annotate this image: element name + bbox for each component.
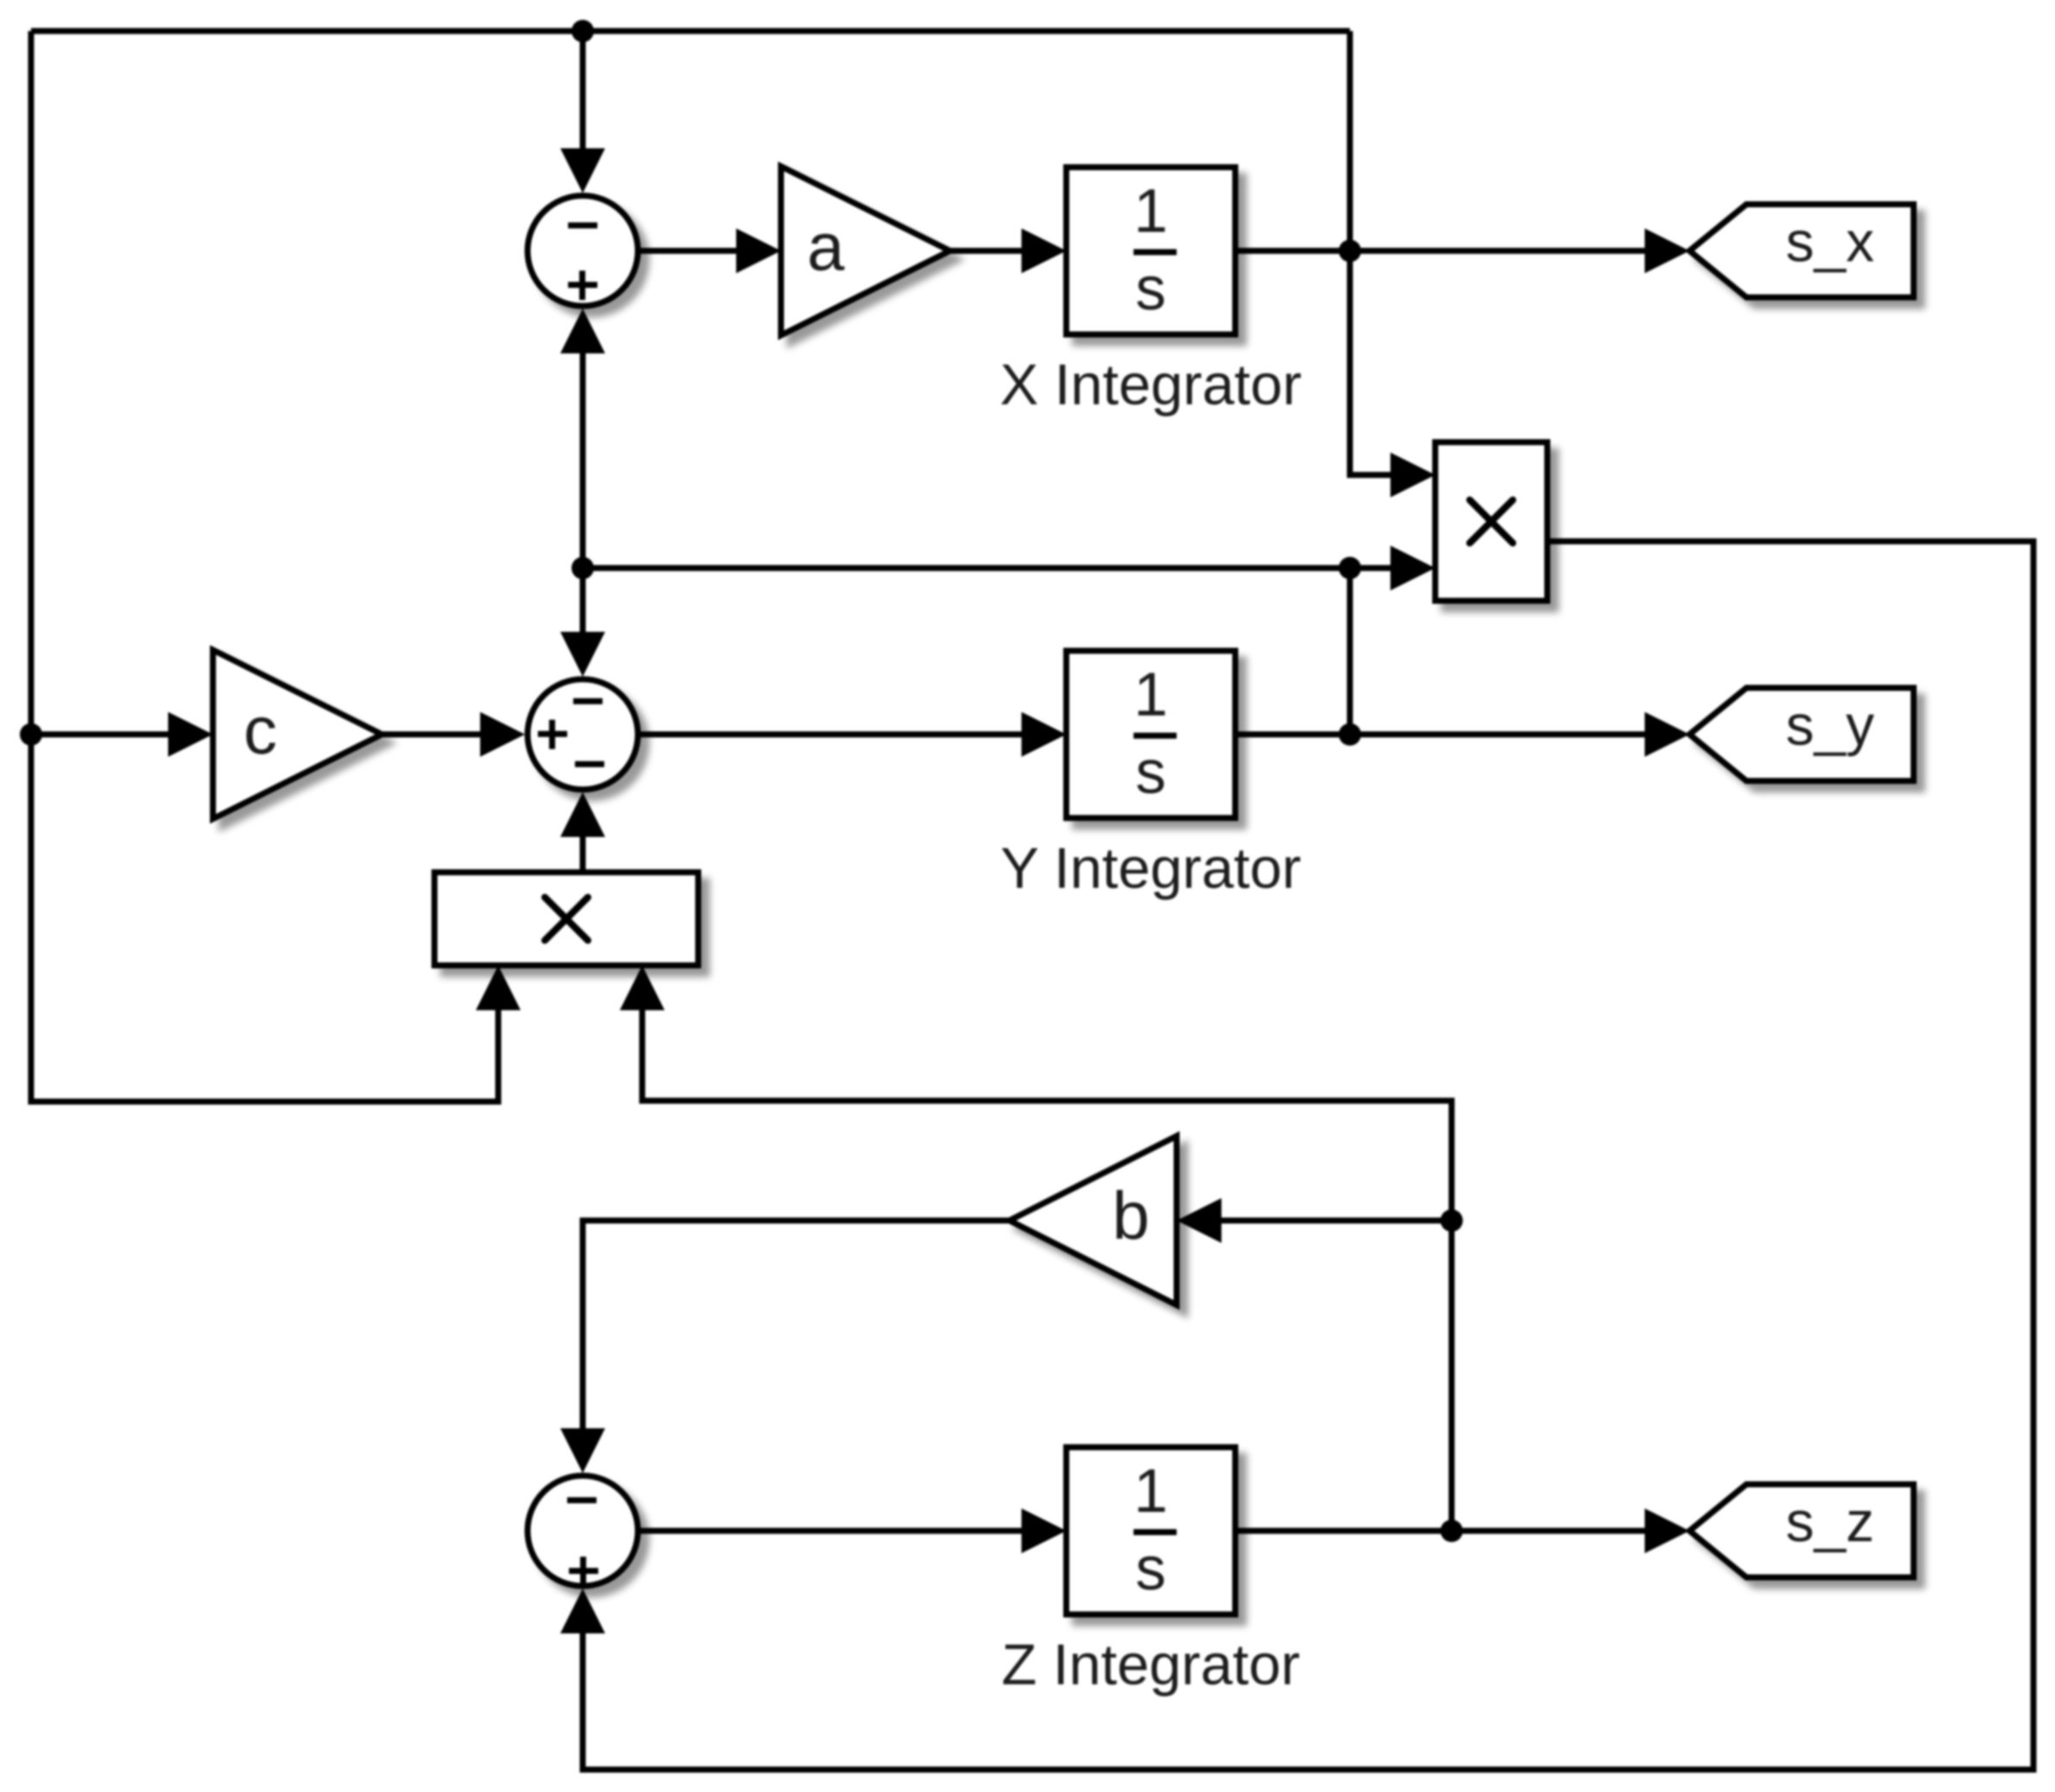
svg-text:s: s (1135, 1535, 1166, 1603)
outport s_y (1690, 688, 1914, 781)
wire: y state column up from Y row (1347, 568, 1353, 734)
Y integrator block 1/s (1066, 651, 1235, 818)
svg-text:s_x: s_x (1786, 209, 1875, 273)
arrowhead into outport s_z (1645, 1508, 1690, 1553)
gain b triangle (points left) (1009, 1136, 1177, 1305)
wire: y state row into multiplier input 2 (583, 565, 1390, 571)
Z sum plus sign (569, 1568, 598, 1574)
wire: z state branch into gain b (1221, 1218, 1452, 1224)
wire: Z integrator output to outport s_z (1235, 1528, 1645, 1534)
X integrator block 1/s (1066, 167, 1235, 334)
wire: Y sum output to Y integrator (640, 732, 1021, 738)
X sum plus sign (568, 282, 597, 288)
arrowhead into Y sum bottom (560, 792, 605, 837)
wire: X sum output to gain a (640, 248, 736, 254)
sum block X (minus top, plus bottom) (528, 196, 638, 306)
arrowhead into multiplier input 1 (1390, 453, 1435, 497)
arrowhead into multiplier input 2 (1390, 546, 1435, 590)
arrowhead into gain b (1177, 1198, 1221, 1243)
wire: gain a output to X integrator (950, 248, 1021, 254)
node: junction z column / gain b feed (1440, 1209, 1463, 1232)
wire: X integrator output to outport s_x (1235, 248, 1645, 254)
arrowhead into X sum top (560, 148, 605, 193)
arrowhead into Z integrator (1021, 1508, 1066, 1553)
svg-text:1: 1 (1134, 178, 1168, 246)
arrowhead into gain c (168, 712, 213, 757)
node: junction top wire / X sum feed (572, 20, 594, 42)
wire: Z sum output to Z integrator (640, 1528, 1021, 1534)
arrowhead into X integrator (1021, 228, 1066, 273)
node: junction y row / sums column (572, 557, 594, 579)
arrowhead into Z sum top (560, 1428, 605, 1473)
wire: z state feedback column up and over to product X input 2 (642, 1010, 1452, 1531)
wire: Y integrator output to outport s_y (1235, 732, 1645, 738)
arrowhead into outport s_x (1645, 228, 1690, 273)
arrowhead into Y integrator (1021, 712, 1066, 757)
multiplier x symbol (1470, 500, 1513, 543)
wire: gain c output to Y sum left (plus) (382, 732, 480, 738)
node: junction Z output row / z column (1440, 1520, 1463, 1542)
svg-text:1: 1 (1134, 661, 1168, 729)
arrowhead into Y sum top (560, 632, 605, 677)
svg-text:s_y: s_y (1786, 693, 1875, 757)
svg-text:s: s (1135, 739, 1166, 807)
arrowhead into gain a (736, 228, 781, 273)
node: junction y row / y column (1339, 557, 1361, 579)
node: junction left border / gain c feed (20, 723, 42, 746)
arrowhead into X sum bottom (560, 309, 605, 353)
sum block Y (plus left, minus top, minus bottom) (528, 679, 638, 790)
product X x symbol (545, 897, 588, 940)
wire: product X output up into Y sum bottom (minus) (580, 837, 586, 872)
gain a triangle (781, 166, 950, 335)
wire: column from top into multiplier input 1 (1350, 31, 1390, 475)
wire: y state down into Y sum top (minus) (580, 568, 586, 632)
outport s_z (1690, 1484, 1914, 1577)
gain c triangle (213, 650, 382, 819)
arrowhead into outport s_y (1645, 712, 1690, 757)
Z integrator block 1/s (1066, 1447, 1235, 1614)
svg-text:s_z: s_z (1786, 1489, 1875, 1553)
svg-text:a: a (807, 209, 845, 284)
wire: multiplier output loop right, down, to Z sum bottom (plus) (583, 541, 2033, 1770)
node: junction X row / multiplier column (1339, 240, 1361, 262)
wire: gain b output over and down to Z sum top (minus) (583, 1221, 1009, 1428)
arrowhead into Z sum bottom (560, 1589, 605, 1633)
arrowhead into product X input 2 (620, 965, 665, 1010)
arrowhead into product X input 1 (476, 965, 521, 1010)
svg-text:X Integrator: X Integrator (1000, 353, 1302, 417)
svg-text:c: c (244, 692, 278, 768)
node: junction Y output row / y column (1339, 723, 1361, 746)
svg-text:Y Integrator: Y Integrator (1001, 836, 1302, 901)
wire: drop into X sum top (minus) (580, 31, 586, 148)
wire: top feedback run (x state) (31, 28, 1350, 34)
Y sum bottom minus sign (575, 761, 604, 767)
Z sum minus sign (567, 1497, 597, 1503)
svg-text:1: 1 (1134, 1458, 1168, 1526)
multiplier block (vertical) (1435, 442, 1547, 601)
svg-text:s: s (1135, 255, 1166, 323)
arrowhead into Y sum left (480, 712, 525, 757)
wire: left border feedback (x state) down to product X input 1 (31, 31, 498, 1102)
wire: y state up into X sum bottom (plus) (580, 353, 586, 568)
outport s_x (1690, 204, 1914, 297)
product X block (horizontal) (434, 872, 698, 965)
svg-text:Z Integrator: Z Integrator (1002, 1633, 1300, 1697)
sum block Z (minus top, plus bottom) (528, 1476, 638, 1586)
wire: into gain c from left border (31, 732, 168, 738)
Y sum top minus sign (573, 698, 603, 704)
Y sum plus sign (538, 731, 567, 737)
X sum minus sign (568, 222, 597, 228)
svg-text:b: b (1112, 1177, 1149, 1253)
